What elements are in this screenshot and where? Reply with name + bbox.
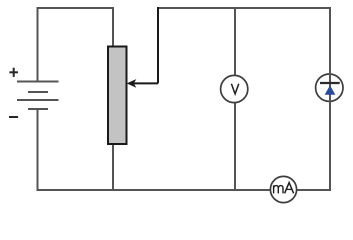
diode D1 anode triangle <box>325 85 336 95</box>
potentiometer R1 body <box>108 47 127 145</box>
battery B1 plate long top (+) <box>17 81 59 83</box>
wiper arrowhead <box>127 79 137 88</box>
milliammeter mA label: m <box>274 185 283 193</box>
wire: pot top vertical <box>112 7 114 47</box>
battery B1 plate short bottom (-) <box>28 108 48 110</box>
voltmeter V body <box>221 75 248 102</box>
milliammeter mA label: A <box>285 183 294 194</box>
wiper wire horizontal <box>133 82 158 84</box>
wire: left vertical lower (battery -) <box>37 109 39 191</box>
wiper wire vertical <box>157 7 159 83</box>
label - (battery negative) <box>9 116 18 118</box>
diode D1 circle body <box>316 74 343 101</box>
wire: diode branch vertical <box>329 7 331 191</box>
wire: top-right rail <box>157 7 331 9</box>
battery B1 plate short <box>28 91 48 93</box>
milliammeter mA body <box>270 176 296 202</box>
wire: left vertical upper (battery +) <box>37 7 39 82</box>
diode D1 cathode bar <box>320 82 340 84</box>
wire: pot bottom vertical <box>112 143 114 190</box>
voltmeter V label <box>231 84 238 94</box>
wire: voltmeter branch vertical <box>234 7 236 190</box>
wire: bottom rail <box>37 189 332 191</box>
battery B1 plate long <box>17 99 59 101</box>
label + (battery positive) <box>9 68 18 77</box>
wire: top-left rail (battery loop top) <box>37 7 115 9</box>
